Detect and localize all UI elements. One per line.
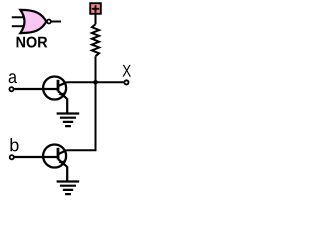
label x	[122, 65, 130, 77]
output terminal x	[124, 80, 128, 84]
label a	[9, 73, 17, 83]
label NOR	[17, 37, 48, 48]
input terminal b	[10, 155, 14, 159]
input terminal a	[9, 87, 13, 91]
resistor R1 zigzag	[92, 24, 99, 56]
NOR gate output bubble	[47, 20, 51, 24]
transistor Q1 base bar	[57, 80, 60, 91]
wire a to Q1 base	[14, 88, 57, 90]
ground G1	[57, 114, 80, 127]
transistor Q2 collector diagonal	[58, 150, 66, 154]
power supply V+ box	[90, 3, 101, 14]
ground G2	[57, 182, 80, 195]
transistor Q1 emitter arrowhead	[58, 92, 65, 97]
transistor Q1 emitter with wire to ground	[58, 91, 67, 113]
transistor Q2 base bar	[57, 148, 60, 159]
NOR gate input wire 2	[12, 25, 24, 27]
wire supply to resistor	[95, 14, 97, 24]
transistor Q1 collector diagonal	[58, 82, 66, 86]
NOR gate output wire	[51, 21, 61, 23]
label b	[10, 138, 18, 151]
transistor Q2 circle	[43, 145, 66, 168]
wire b to Q2 base	[15, 156, 58, 158]
node x junction dot	[93, 80, 98, 85]
transistor Q1 circle	[43, 77, 66, 100]
NOR gate U1 body	[20, 10, 46, 33]
NOR gate input wire 1	[12, 16, 24, 18]
transistor Q2 emitter with wire to ground	[58, 159, 67, 181]
power supply plus sign	[92, 5, 99, 12]
transistor Q2 emitter arrowhead	[58, 160, 65, 165]
wire collector Q1 to output terminal	[66, 81, 124, 83]
wire resistor down to Q2 collector corner	[66, 56, 95, 150]
